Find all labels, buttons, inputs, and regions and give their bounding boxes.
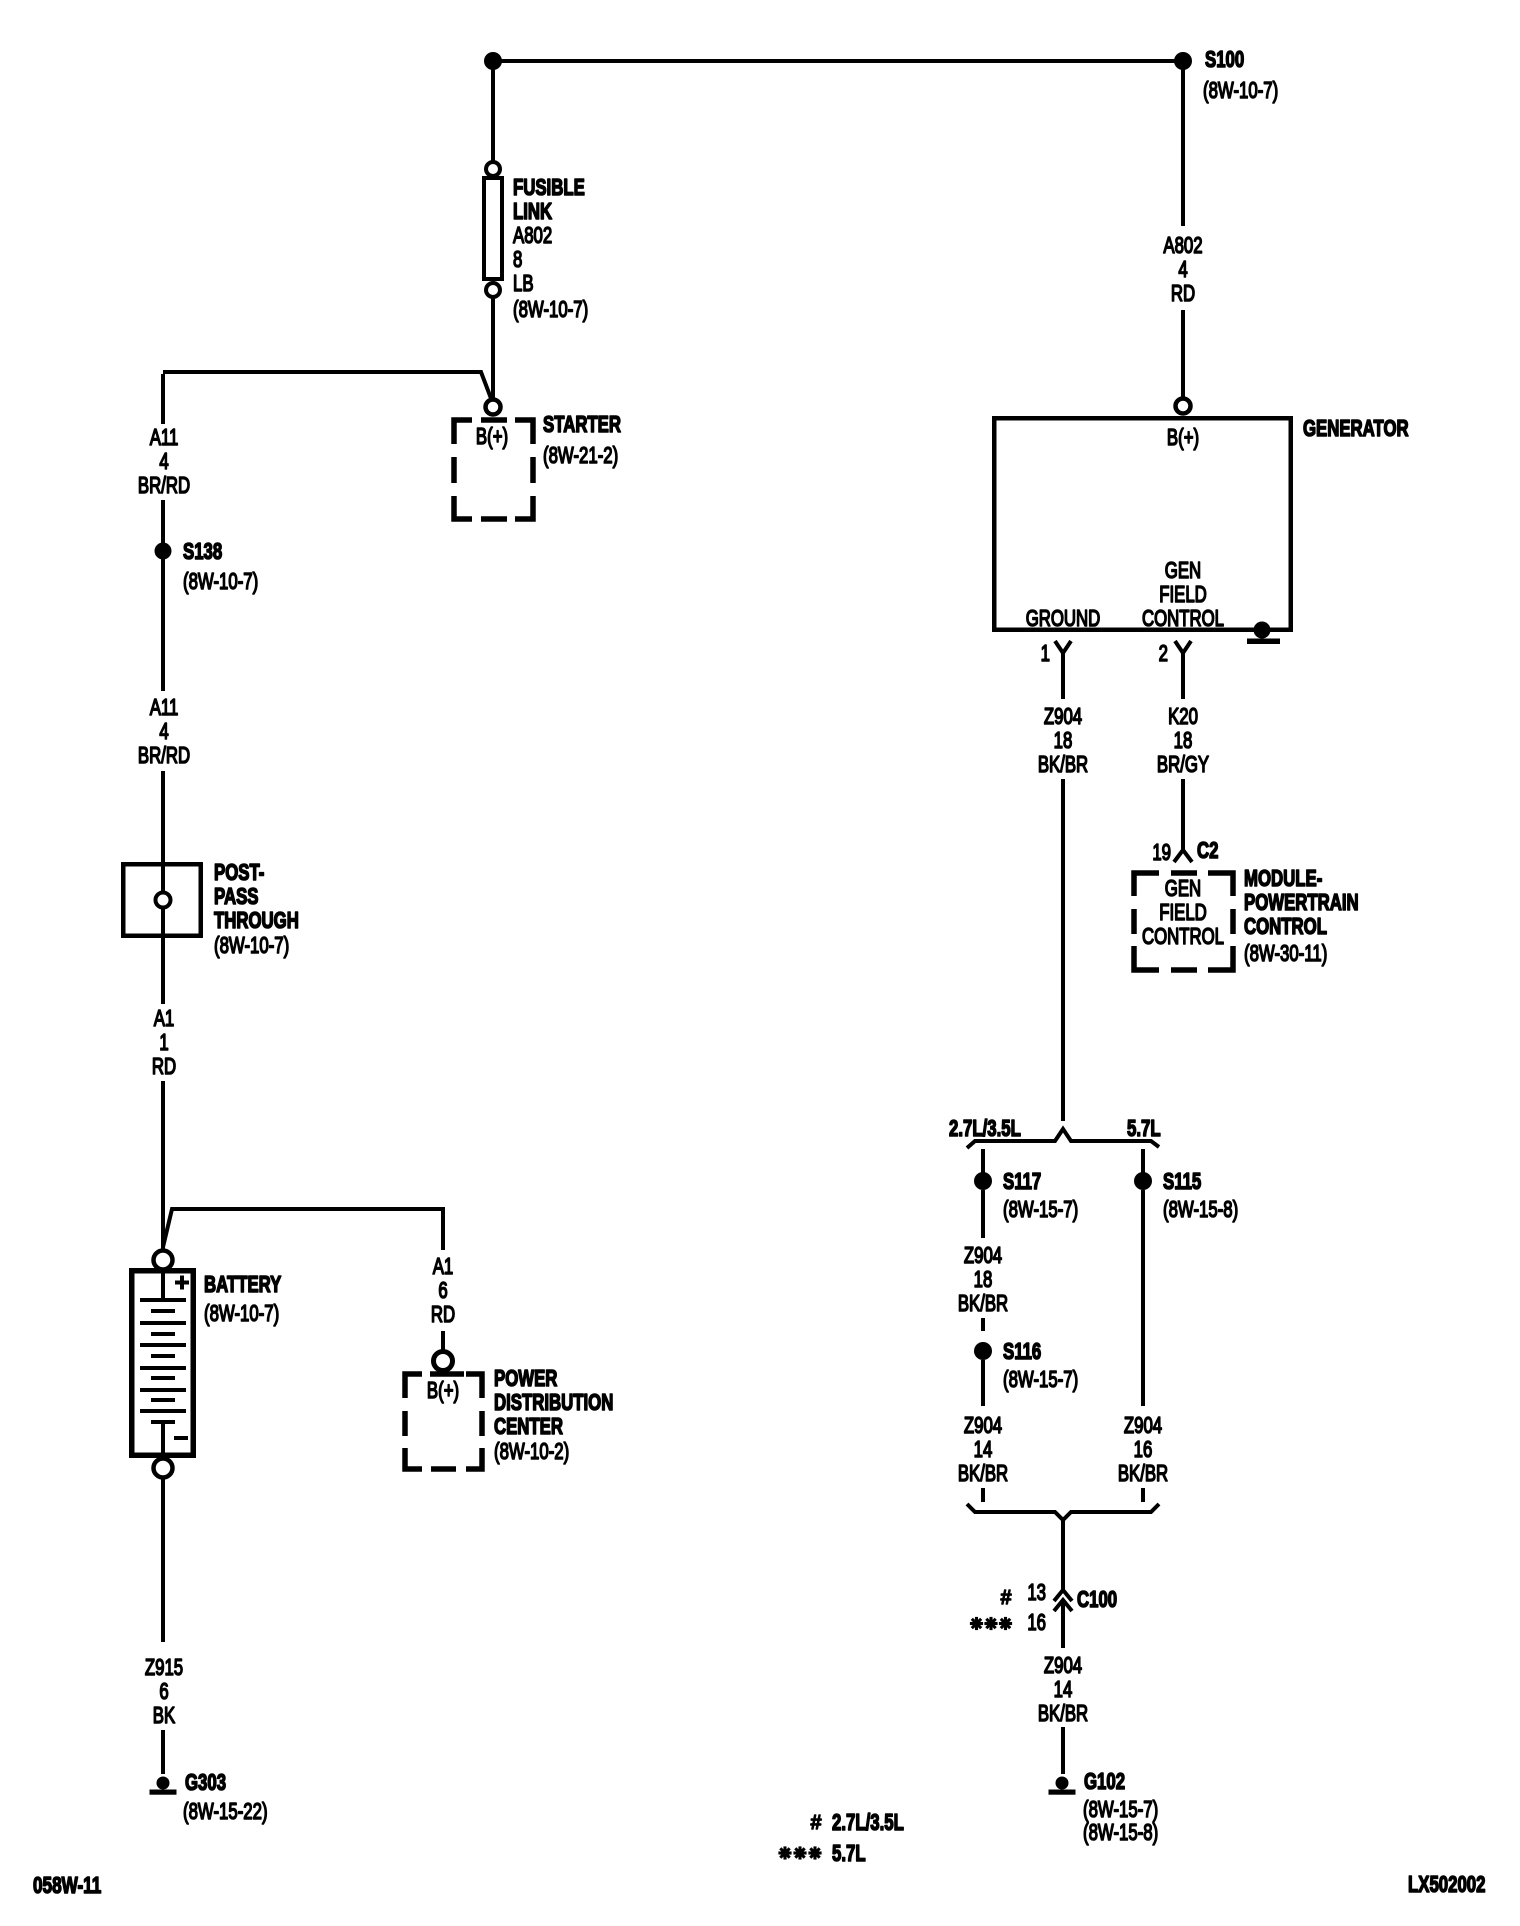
splice S116 — [974, 1342, 992, 1360]
splice S138 — [155, 543, 172, 560]
generator B(+) terminal — [1176, 399, 1191, 414]
engine split brace (top) — [967, 1129, 1159, 1148]
svg-text:(8W-10-7): (8W-10-7) — [183, 570, 258, 595]
wire brace to S115 — [1141, 1149, 1145, 1173]
wire to G303 — [161, 1730, 165, 1774]
wire to S116 — [981, 1318, 985, 1331]
label MODULE-POWERTRAIN CONTROL (8W-30-11) — [1244, 867, 1359, 967]
generator pin 1 fork — [1055, 641, 1071, 699]
label POST-PASS THROUGH (8W-10-7) — [214, 861, 299, 959]
legend asterisks 5.7L — [778, 1842, 865, 1867]
svg-text:(8W-15-7): (8W-15-7) — [1003, 1368, 1078, 1393]
svg-text:#: # — [811, 1812, 822, 1835]
wire branch to battery leg (horizontal) with diagonal into starter terminal — [163, 372, 492, 401]
ground G102 — [1056, 1777, 1069, 1790]
svg-text:19: 19 — [1152, 841, 1171, 866]
splice S100 — [1174, 52, 1192, 70]
svg-text:(8W-10-7): (8W-10-7) — [513, 298, 588, 323]
svg-text:STARTER: STARTER — [543, 413, 621, 438]
wire S138 down — [161, 559, 165, 691]
svg-text:#: # — [1001, 1587, 1012, 1610]
wire into merge brace right — [1141, 1488, 1145, 1502]
splice S115 — [1134, 1172, 1152, 1190]
svg-text:BATTERY: BATTERY — [204, 1273, 282, 1298]
svg-text:S116: S116 — [1003, 1340, 1041, 1365]
svg-text:16: 16 — [1027, 1611, 1046, 1636]
wire branch corner down to S138 — [161, 374, 165, 424]
wire down to PDC terminal — [441, 1331, 445, 1350]
svg-text:LX502002: LX502002 — [1408, 1873, 1485, 1898]
svg-text:GENERATOR: GENERATOR — [1303, 417, 1409, 442]
wire battery positive branch to power distribution center — [163, 1209, 443, 1250]
generator pin 2 fork — [1175, 641, 1191, 699]
wire brace to S117 — [981, 1149, 985, 1173]
svg-text:(8W-10-7): (8W-10-7) — [204, 1302, 279, 1327]
svg-text:(8W-21-2): (8W-21-2) — [543, 444, 618, 469]
svg-text:(8W-10-2): (8W-10-2) — [494, 1440, 569, 1465]
svg-text:5.7L: 5.7L — [1127, 1117, 1161, 1142]
connector C100 chevrons — [1054, 1590, 1072, 1648]
generator case ground (dot and bar) — [1247, 622, 1280, 645]
svg-text:G102: G102 — [1084, 1770, 1125, 1795]
wire Z904 long run to engine split — [1061, 779, 1065, 1121]
node junction at fusible link feed — [484, 52, 502, 70]
svg-text:2.7L/3.5L: 2.7L/3.5L — [949, 1117, 1021, 1142]
svg-text:B(+): B(+) — [476, 425, 508, 450]
ground G303 — [157, 1777, 170, 1790]
label S116 (8W-15-7) — [1003, 1340, 1078, 1393]
wire battery negative down — [161, 1478, 165, 1642]
svg-text:(8W-15-7): (8W-15-7) — [1003, 1198, 1078, 1223]
svg-text:(8W-15-22): (8W-15-22) — [183, 1800, 268, 1825]
power distribution center dashed box — [405, 1374, 482, 1469]
merge brace (bottom) — [967, 1504, 1159, 1520]
post-pass through terminal (8W-10-7) — [123, 864, 201, 936]
svg-text:S100: S100 — [1205, 48, 1244, 73]
label POWER DISTRIBUTION CENTER (8W-10-2) — [494, 1367, 613, 1465]
wire K20 to connector C2 — [1181, 779, 1185, 851]
module-powertrain control dashed box GEN FIELD CONTROL — [1134, 873, 1233, 970]
svg-text:(8W-15-7)(8W-15-8): (8W-15-7)(8W-15-8) — [1083, 1798, 1158, 1846]
wire S117 down — [981, 1190, 985, 1238]
starter (8W-21-2) dashed box — [454, 420, 533, 519]
wire fusible link to starter B(+) — [491, 297, 495, 400]
label S138 (8W-10-7) — [183, 540, 258, 595]
wire S100 down to generator — [1181, 63, 1185, 226]
wire S115 down — [1141, 1190, 1145, 1406]
svg-text:GROUND: GROUND — [1026, 607, 1101, 632]
svg-text:13: 13 — [1027, 1581, 1046, 1606]
generator box — [994, 418, 1291, 630]
wire S116 down — [981, 1360, 985, 1406]
label G303 (8W-15-22) — [183, 1771, 268, 1825]
label S117 (8W-15-7) — [1003, 1170, 1078, 1223]
svg-text:058W-11: 058W-11 — [33, 1872, 101, 1898]
connector C2 pin 19 half-fork — [1174, 850, 1192, 862]
wire top bus from fusible link junction to S100 — [493, 59, 1183, 63]
svg-text:2: 2 — [1159, 642, 1168, 667]
label BATTERY (8W-10-7) — [204, 1273, 282, 1327]
splice S117 — [974, 1172, 992, 1190]
svg-text:1: 1 — [1041, 642, 1050, 667]
svg-text:(8W-10-7): (8W-10-7) — [1203, 79, 1278, 104]
starter B(+) terminal — [486, 400, 501, 415]
label STARTER (8W-21-2) — [543, 413, 621, 469]
wire merge to connector C100 — [1061, 1521, 1065, 1591]
battery (8W-10-7) — [132, 1251, 194, 1478]
svg-text:2.7L/3.5L: 2.7L/3.5L — [832, 1811, 904, 1836]
svg-text:5.7L: 5.7L — [832, 1842, 866, 1867]
fusible link A802 8 LB (8W-10-7) — [484, 162, 588, 323]
svg-text:C2: C2 — [1197, 839, 1218, 864]
svg-text:C100: C100 — [1077, 1588, 1117, 1613]
wire post-pass through to battery — [161, 938, 165, 1004]
svg-text:B(+): B(+) — [427, 1379, 459, 1404]
svg-text:S115: S115 — [1163, 1170, 1201, 1195]
legend hash 2.7L/3.5L — [811, 1811, 904, 1836]
wire into merge brace left — [981, 1488, 985, 1502]
svg-text:(8W-30-11): (8W-30-11) — [1244, 942, 1327, 967]
engine mark asterisks at pin 16 — [970, 1617, 1012, 1630]
wire into post-pass through — [161, 771, 165, 864]
power distribution center B(+) terminal — [434, 1352, 453, 1371]
label S115 (8W-15-8) — [1163, 1170, 1238, 1223]
svg-text:G303: G303 — [185, 1771, 226, 1796]
svg-text:(8W-10-7): (8W-10-7) — [214, 934, 289, 959]
label S100 (8W-10-7) — [1203, 48, 1278, 104]
svg-text:(8W-15-8): (8W-15-8) — [1163, 1198, 1238, 1223]
wire to G102 — [1061, 1727, 1065, 1774]
wire junction down to fusible link — [491, 63, 495, 163]
svg-text:B(+): B(+) — [1167, 426, 1199, 451]
svg-text:S138: S138 — [183, 540, 222, 565]
svg-text:S117: S117 — [1003, 1170, 1041, 1195]
label G102 (8W-15-7) (8W-15-8) — [1083, 1770, 1158, 1846]
